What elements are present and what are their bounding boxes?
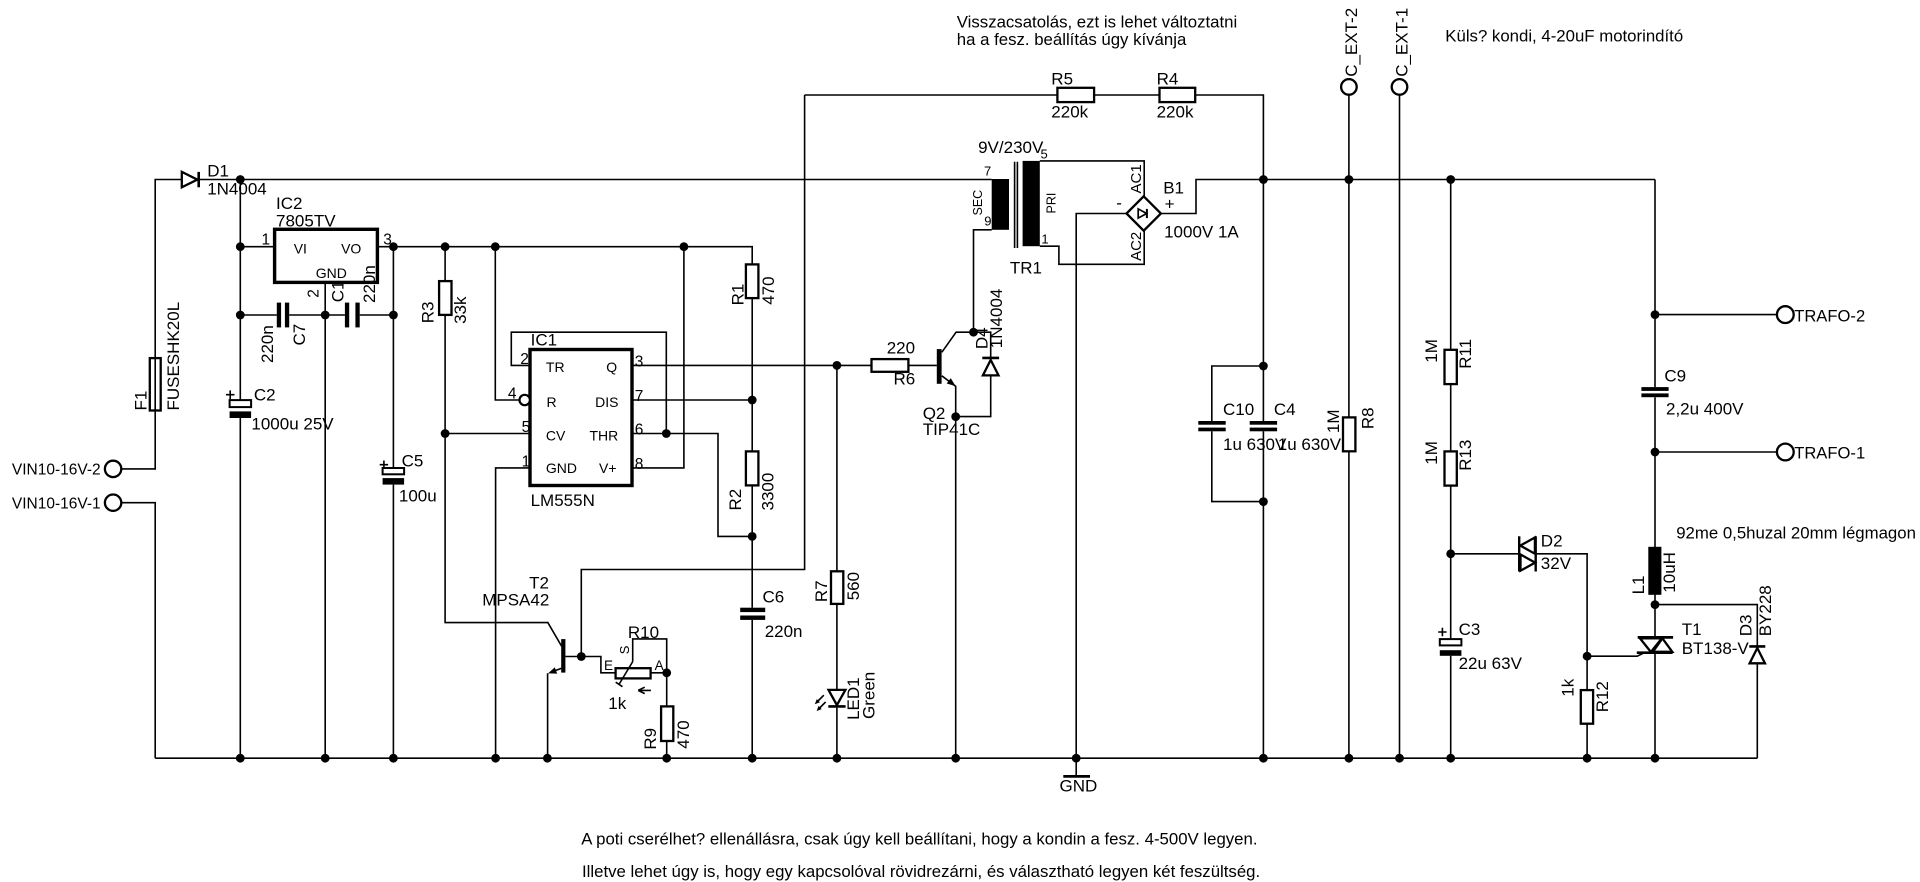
svg-text:22u 63V: 22u 63V — [1459, 654, 1523, 673]
node Q2 collector / SEC / D4 — [969, 328, 978, 337]
svg-text:C6: C6 — [763, 587, 785, 606]
wire C6 bottom to ground rail — [751, 620, 753, 758]
svg-text:1M: 1M — [1422, 441, 1441, 465]
wire C3 bottom to ground rail — [1450, 656, 1452, 759]
node C7 row left — [236, 311, 245, 320]
transistor T2 MPSA42 — [561, 639, 565, 673]
wire R6 to Q2 base — [908, 364, 936, 366]
svg-text:+: + — [1165, 195, 1175, 214]
svg-text:6: 6 — [635, 422, 644, 439]
svg-text:C_EXT-2: C_EXT-2 — [1342, 8, 1361, 77]
wire T2 emitter to ground rail — [548, 668, 562, 758]
svg-text:7: 7 — [984, 164, 991, 179]
svg-text:D3: D3 — [1736, 615, 1755, 637]
node ground rail Q2 emitter — [951, 754, 960, 763]
node HV rail / feedback junction — [1259, 175, 1268, 184]
wire F1 top to D1 anode — [155, 180, 182, 359]
capacitor C9 2,2u 400V — [1641, 387, 1668, 391]
timer IC1 LM555N — [530, 350, 632, 486]
node TRAFO-1 branch — [1651, 448, 1660, 457]
svg-text:Visszacsatolás, ezt is lehet v: Visszacsatolás, ezt is lehet változtatni — [957, 12, 1237, 31]
svg-text:1: 1 — [522, 453, 531, 470]
diode D1 1N4004 — [182, 172, 198, 187]
wire T2 base junction jog to R10 terminal E — [581, 657, 615, 673]
resistor R5 220k — [1057, 88, 1094, 102]
wire D2 junction to D2 left bar — [1451, 553, 1520, 555]
svg-text:220k: 220k — [1157, 103, 1194, 122]
wire IC2 GND pin down to ground rail — [324, 282, 326, 758]
svg-text:IC2: IC2 — [276, 194, 302, 213]
svg-text:7805TV: 7805TV — [276, 212, 336, 231]
node HV rail / C_EXT-2 junction — [1345, 175, 1354, 184]
capacitor C6 220n — [740, 608, 765, 612]
svg-text:7: 7 — [635, 388, 644, 405]
node C7 row / IC2 GND column — [321, 311, 330, 320]
node ground rail C4 — [1259, 754, 1268, 763]
wire VIN10-16V-1 to ground rail — [121, 503, 155, 759]
svg-text:PRI: PRI — [1044, 193, 1058, 214]
ground symbol bar — [1063, 775, 1090, 778]
wire HV rail right end down to C9 / TRAFO-2 — [1654, 180, 1656, 388]
node ground rail C3 — [1446, 754, 1455, 763]
capacitor C3 22u 63V — [1440, 639, 1462, 645]
wire C2 bottom to ground rail — [239, 418, 241, 758]
diac D2 32V — [1518, 536, 1520, 571]
svg-text:TIP41C: TIP41C — [923, 420, 981, 439]
svg-text:R11: R11 — [1456, 339, 1475, 369]
svg-text:VI: VI — [294, 241, 307, 257]
wire R10 terminal A to junction — [651, 672, 667, 674]
svg-text:1k: 1k — [608, 694, 626, 713]
fuse F1 — [150, 358, 161, 410]
wire D1 cathode to transformer SEC top (12V rail) — [200, 179, 992, 181]
wire VIN10-16V-2 to fuse F1 — [121, 411, 155, 469]
potentiometer R10 1k — [616, 668, 651, 678]
svg-text:2: 2 — [306, 289, 323, 298]
node ground rail IC2 GND — [321, 754, 330, 763]
svg-text:DIS: DIS — [595, 394, 618, 410]
wire fuse F1 through-line — [154, 358, 156, 410]
wire R11 bottom to R13 top — [1450, 384, 1452, 451]
wire gate junction to triac T1 gate — [1587, 653, 1643, 656]
wire 555 pin 3 Q output row to R6 — [632, 364, 872, 366]
svg-text:T1: T1 — [1682, 620, 1702, 639]
wire D4 anode to emitter column — [956, 376, 991, 417]
capacitor C5 100u — [383, 468, 405, 474]
svg-text:Q: Q — [606, 359, 617, 375]
LED1 Green — [829, 690, 846, 705]
wire C7 row left segment — [240, 314, 276, 316]
svg-text:C3: C3 — [1459, 620, 1481, 639]
svg-text:1000V 1A: 1000V 1A — [1164, 222, 1239, 241]
terminal TRAFO-2 — [1777, 306, 1794, 323]
svg-text:AC2: AC2 — [1128, 232, 1145, 261]
node DIS / R1-R2 — [748, 396, 757, 405]
svg-text:1N4004: 1N4004 — [987, 289, 1006, 349]
svg-text:LM555N: LM555N — [531, 491, 595, 510]
svg-text:TR1: TR1 — [1010, 259, 1042, 278]
svg-text:5: 5 — [1041, 146, 1048, 161]
svg-text:220n: 220n — [765, 622, 803, 641]
node ground rail triac — [1651, 754, 1660, 763]
wire ground symbol stub — [1075, 758, 1077, 775]
svg-text:1u 630V: 1u 630V — [1278, 435, 1342, 454]
svg-text:TRAFO-2: TRAFO-2 — [1794, 306, 1865, 325]
svg-text:VIN10-16V-1: VIN10-16V-1 — [12, 495, 101, 512]
node CV / R3 column — [441, 429, 450, 438]
wire C10 parallel branch bottom — [1212, 431, 1264, 501]
node VO rail / C5 column — [389, 242, 398, 251]
wire VO rail down to 555 pin 4 R — [495, 247, 519, 400]
node ground rail T2 emitter — [543, 754, 552, 763]
svg-text:SEC: SEC — [971, 190, 985, 216]
svg-text:A poti cserélhet? ellenállásra: A poti cserélhet? ellenállásra, csak úgy… — [581, 830, 1257, 849]
svg-text:1000u 25V: 1000u 25V — [251, 415, 334, 434]
svg-text:1M: 1M — [1422, 339, 1441, 363]
svg-text:9: 9 — [984, 214, 991, 229]
wire L1 bottom to triac T1 — [1654, 594, 1656, 636]
wire HV rail down to R11 — [1450, 180, 1452, 350]
svg-text:R1: R1 — [728, 284, 747, 306]
svg-text:CV: CV — [546, 428, 566, 444]
node triac gate / R12 — [1583, 652, 1592, 661]
wire to IC2 pin 1 VI — [240, 246, 274, 248]
svg-text:FUSESHK20L: FUSESHK20L — [164, 302, 183, 411]
svg-text:C7: C7 — [290, 324, 309, 346]
resistor R3 33k — [439, 281, 451, 315]
svg-text:220: 220 — [887, 338, 915, 357]
wire VO rail down to C5 — [392, 247, 394, 468]
svg-text:R10: R10 — [628, 623, 659, 642]
terminal TRAFO-1 — [1777, 444, 1794, 461]
resistor R13 1M — [1445, 451, 1457, 485]
wire C9 bottom through TRAFO-1 junction to L1 — [1654, 397, 1656, 547]
resistor R11 1M — [1445, 350, 1457, 384]
node ground rail C_EXT-1 — [1395, 754, 1404, 763]
svg-text:100u: 100u — [399, 487, 437, 506]
svg-text:R6: R6 — [894, 370, 916, 389]
resistor R2 3300 — [746, 451, 759, 485]
node L1 bottom / D3 branch — [1651, 600, 1660, 609]
node R10 terminal A / R9 — [662, 668, 671, 677]
wire R9 bottom to ground rail — [666, 741, 668, 758]
svg-text:R: R — [547, 394, 557, 410]
wire R2 bottom to C6 — [751, 485, 753, 607]
triac T1 BT138-V — [1638, 636, 1673, 639]
svg-text:TR: TR — [546, 359, 565, 375]
svg-text:92me 0,5huzal 20mm légmagon: 92me 0,5huzal 20mm légmagon — [1676, 524, 1916, 543]
svg-text:F1: F1 — [132, 391, 151, 411]
wire Q row junction down to R7 — [836, 365, 838, 571]
svg-text:AC1: AC1 — [1128, 164, 1145, 193]
svg-text:D1: D1 — [207, 161, 229, 180]
node ground rail R9 — [662, 754, 671, 763]
capacitor C10 1u 630V — [1198, 421, 1225, 425]
wire C1 to C5 column — [360, 314, 394, 316]
svg-text:R3: R3 — [419, 302, 438, 324]
node ground rail R12 — [1583, 754, 1592, 763]
svg-text:THR: THR — [590, 428, 619, 444]
svg-text:L1: L1 — [1629, 575, 1648, 594]
node C10/C4 bottom — [1259, 497, 1268, 506]
node ground rail R8 — [1345, 754, 1354, 763]
node Q2 emitter / D4 anode — [951, 412, 960, 421]
svg-text:D2: D2 — [1541, 531, 1563, 550]
node ground rail bridge minus / GND symbol — [1072, 754, 1081, 763]
svg-text:9V/230V: 9V/230V — [978, 138, 1044, 157]
svg-text:Green: Green — [860, 672, 879, 719]
wire C7 to C1 segment — [289, 314, 345, 316]
node THR jog / R2 bottom — [748, 532, 757, 541]
node HV rail / R11 junction — [1446, 175, 1455, 184]
node D1 output junction — [236, 175, 245, 184]
svg-text:C4: C4 — [1274, 400, 1296, 419]
wire C_EXT-2 terminal down to HV rail — [1348, 95, 1350, 180]
svg-text:R7: R7 — [812, 580, 831, 602]
svg-text:BY228: BY228 — [1756, 585, 1775, 636]
wire R7 bottom to LED1 — [836, 604, 838, 690]
wire HV rail down to C4 top junction — [1262, 180, 1264, 422]
wire PRI bottom pin1 to bridge AC2 — [1040, 231, 1144, 265]
wire Q2 collector to SEC winding bottom — [942, 230, 992, 352]
svg-text:R4: R4 — [1157, 69, 1179, 88]
wire to TRAFO-2 terminal — [1655, 314, 1777, 316]
svg-text:33k: 33k — [451, 296, 470, 324]
wire 555 pin 7 DIS to R1/R2 junction — [632, 399, 752, 401]
svg-text:GND: GND — [316, 265, 347, 281]
svg-text:Küls? kondi, 4-20uF motorindít: Küls? kondi, 4-20uF motorindító — [1445, 27, 1683, 46]
terminal C_EXT-2 — [1341, 79, 1357, 95]
diode D3 BY228 — [1749, 645, 1765, 648]
inductor L1 10uH — [1648, 547, 1661, 595]
node VO rail / R3 — [441, 242, 450, 251]
wire PRI top pin5 to bridge AC1 — [1040, 161, 1144, 196]
wire L1 junction to D3 cathode — [1655, 605, 1757, 647]
svg-text:2: 2 — [520, 351, 529, 368]
node VO rail / V+ riser — [680, 242, 689, 251]
node TRAFO-2 branch — [1651, 310, 1660, 319]
wire C10 parallel branch top — [1212, 366, 1264, 421]
wire C5 bottom to ground rail — [392, 485, 394, 759]
svg-text:C9: C9 — [1664, 367, 1686, 386]
wire R8 bottom to ground rail — [1348, 451, 1350, 758]
svg-text:C10: C10 — [1223, 400, 1254, 419]
svg-text:3300: 3300 — [759, 473, 778, 511]
wire feedback row to R5 — [805, 94, 1058, 96]
node C10/C4 top — [1259, 362, 1268, 371]
wire R10 wiper S loop to terminal A — [633, 639, 667, 673]
svg-text:C2: C2 — [254, 385, 276, 404]
svg-text:VIN10-16V-2: VIN10-16V-2 — [12, 462, 101, 479]
wire 555 pin 6 THR jog to R2 bottom — [632, 434, 752, 537]
wire 555 pin 5 CV to R3 column — [445, 433, 530, 435]
svg-text:R9: R9 — [641, 728, 660, 750]
wire ground bottom rail — [155, 757, 1757, 759]
svg-text:R5: R5 — [1051, 69, 1073, 88]
wire bridge plus output to HV top rail — [1161, 180, 1655, 214]
svg-text:R2: R2 — [726, 489, 745, 511]
svg-text:10uH: 10uH — [1660, 552, 1679, 593]
svg-text:A: A — [655, 658, 664, 673]
svg-text:1k: 1k — [1559, 678, 1578, 696]
wire HV rail down to R8 — [1348, 180, 1350, 418]
wire 555 pin 2 TR loop to THR — [511, 332, 666, 433]
svg-text:1: 1 — [1041, 232, 1048, 247]
svg-text:S: S — [617, 645, 632, 654]
svg-text:V+: V+ — [599, 460, 617, 476]
svg-text:220n: 220n — [360, 265, 379, 303]
resistor R12 1k — [1581, 690, 1593, 724]
svg-text:R12: R12 — [1593, 681, 1612, 712]
wire R10 junction to R9 — [666, 673, 668, 707]
svg-text:Illetve lehet úgy is, hogy egy: Illetve lehet úgy is, hogy egy kapcsolóv… — [582, 862, 1260, 881]
node VIN junction at IC2 pin1 — [236, 242, 245, 251]
node ground rail 555 GND — [491, 754, 500, 763]
svg-text:5: 5 — [522, 419, 531, 436]
terminal C_EXT-1 — [1392, 79, 1408, 95]
svg-text:ha a fesz. beállítás úgy kíván: ha a fesz. beállítás úgy kívánja — [957, 30, 1187, 49]
wire D2 right bar to triac gate column — [1536, 554, 1587, 656]
svg-text:4: 4 — [508, 385, 517, 402]
node D2 branch — [1446, 549, 1455, 558]
wire collector junction to D4 cathode — [974, 332, 991, 357]
resistor R9 470 — [661, 706, 673, 741]
wire T2 collector diagonal — [547, 622, 561, 646]
resistor R8 1M — [1343, 417, 1355, 451]
voltage regulator IC2 7805TV — [275, 229, 378, 282]
wire R12 bottom to ground rail — [1586, 724, 1588, 759]
svg-text:E: E — [604, 658, 613, 673]
wire VO rail to R3 top — [444, 247, 446, 281]
svg-text:3: 3 — [635, 353, 644, 370]
svg-text:R8: R8 — [1359, 407, 1378, 429]
svg-text:VO: VO — [341, 241, 361, 257]
svg-text:1M: 1M — [1324, 409, 1343, 433]
svg-text:32V: 32V — [1541, 554, 1572, 573]
node T2 base junction — [577, 652, 586, 661]
wire 555 pin 8 V+ riser to VO rail — [632, 247, 684, 468]
node VO rail / pin4 riser — [491, 242, 500, 251]
svg-text:C1: C1 — [329, 281, 348, 303]
wire 555 pin 1 GND to ground rail — [496, 468, 530, 758]
svg-text:TRAFO-1: TRAFO-1 — [1794, 444, 1865, 463]
transistor Q2 TIP41C — [937, 349, 942, 384]
svg-text:GND: GND — [546, 460, 577, 476]
node ground rail LED1 — [833, 754, 842, 763]
wire to TRAFO-1 terminal — [1655, 451, 1777, 453]
svg-text:C_EXT-1: C_EXT-1 — [1392, 8, 1411, 77]
bridge rectifier B1 1000V 1A — [1127, 196, 1161, 230]
wire feedback vertical down to T2 base riser — [581, 95, 804, 657]
diode D4 1N4004 — [982, 357, 999, 360]
svg-text:220n: 220n — [258, 325, 277, 363]
svg-text:GND: GND — [1060, 777, 1098, 796]
wire bridge minus output to GND rail — [1076, 214, 1126, 759]
node C1 row / C5 column — [389, 311, 398, 320]
wire LED1 cathode to ground rail — [836, 708, 838, 759]
node ground rail C2 — [236, 754, 245, 763]
wire R5 to R4 — [1094, 94, 1159, 96]
wire gate junction down to R12 — [1586, 656, 1588, 690]
wire D3 anode to ground rail end — [1756, 664, 1758, 759]
svg-text:2,2u 400V: 2,2u 400V — [1666, 399, 1744, 418]
wire R3 bottom through CV junction down to T2 collector row — [445, 315, 547, 623]
svg-text:8: 8 — [635, 456, 644, 473]
resistor R6 220 — [872, 359, 909, 372]
wire R1 bottom to R2 top — [751, 298, 753, 451]
resistor R7 560 — [831, 571, 843, 604]
node ground rail C6 — [748, 754, 757, 763]
svg-text:BT138-V: BT138-V — [1682, 639, 1750, 658]
svg-text:1: 1 — [262, 232, 271, 249]
svg-text:-: - — [1116, 193, 1122, 212]
node ground rail C5 — [389, 754, 398, 763]
capacitor C7 220n — [277, 303, 281, 328]
wire R13 bottom through D2 junction to C3 top — [1450, 486, 1452, 639]
wire C4 bottom to ground rail — [1262, 431, 1264, 758]
svg-text:470: 470 — [674, 720, 693, 748]
transformer TR1 9V/230V — [992, 179, 1009, 230]
wire T2 base to junction — [565, 656, 581, 658]
terminal VIN10-16V-2 — [105, 461, 121, 477]
wire C_EXT-1 terminal down to ground rail — [1399, 95, 1401, 759]
resistor R4 220k — [1160, 88, 1196, 102]
svg-text:470: 470 — [759, 276, 778, 304]
capacitor C1 220n — [345, 303, 349, 328]
capacitor C2 1000u 25V — [230, 400, 252, 407]
wire Q2 emitter down to ground rail — [942, 376, 956, 758]
wire triac T1 bottom to ground rail — [1654, 653, 1656, 758]
svg-text:MPSA42: MPSA42 — [482, 590, 549, 609]
svg-text:560: 560 — [844, 572, 863, 600]
svg-text:R13: R13 — [1456, 440, 1475, 471]
wire R4 to HV rail — [1195, 95, 1263, 180]
svg-text:IC1: IC1 — [531, 331, 557, 350]
wire D1 junction down to C2 top — [239, 180, 241, 401]
svg-text:220k: 220k — [1051, 103, 1088, 122]
wire 5V VO rail from IC2 pin3 to R1 — [377, 247, 752, 265]
capacitor C4 1u 630V — [1250, 421, 1277, 425]
node Q row / R7 column — [833, 361, 842, 370]
svg-text:C5: C5 — [402, 451, 424, 470]
terminal VIN10-16V-1 — [105, 495, 121, 511]
resistor R1 470 — [746, 264, 759, 298]
node TR loop / THR row — [662, 429, 671, 438]
